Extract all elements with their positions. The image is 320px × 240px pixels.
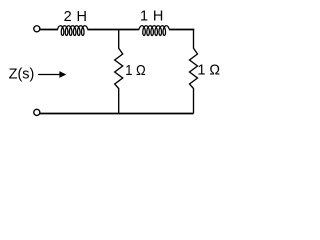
wire (L2 to top-right corner) bbox=[169, 29, 194, 32]
inductor L1 2 H bbox=[58, 26, 88, 36]
inductor L2 1 H bbox=[139, 26, 169, 36]
svg-text:1 Ω: 1 Ω bbox=[198, 62, 221, 78]
terminal (top input) bbox=[34, 26, 40, 32]
arrow (impedance looking in) bbox=[38, 74, 61, 76]
terminal (bottom input) bbox=[34, 109, 40, 115]
svg-text:1 Ω: 1 Ω bbox=[125, 63, 146, 79]
svg-text:1 H: 1 H bbox=[140, 9, 163, 25]
resistor R1 (middle branch) bbox=[115, 30, 123, 114]
resistor R2 (right branch) bbox=[190, 30, 198, 114]
svg-text:Z(s): Z(s) bbox=[9, 66, 35, 82]
svg-text:2 H: 2 H bbox=[64, 9, 87, 25]
wire (top terminal to L1) bbox=[40, 29, 59, 31]
wire (L1 to L2 through node A) bbox=[88, 29, 140, 31]
wire (bottom rail) bbox=[40, 113, 194, 115]
